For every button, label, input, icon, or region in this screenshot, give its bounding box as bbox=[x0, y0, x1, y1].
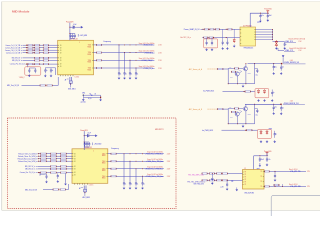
orange label ADC ctrl B bbox=[189, 108, 202, 111]
capacitor C22 bbox=[255, 68, 259, 76]
power rail wire above U1 bbox=[69, 23, 70, 41]
J1 sub label MTK_RXD bbox=[194, 183, 204, 185]
capacitor C11 bbox=[211, 38, 213, 46]
net label MID_Test B bbox=[25, 188, 38, 191]
output row +T1000_TX_Aux bbox=[94, 65, 163, 70]
svg-text:4.7K: 4.7K bbox=[239, 70, 242, 72]
capacitor C31 bbox=[266, 157, 271, 162]
input row Camera_Tx_D_5V_2M_in with resistors bbox=[5, 44, 57, 47]
svg-text:0 TEL_MTK_RXD: 0 TEL_MTK_RXD bbox=[290, 186, 301, 188]
power net label Power3V3 bbox=[66, 20, 73, 23]
ground IC bottom left bbox=[235, 188, 238, 192]
wire MID test row B bbox=[43, 189, 53, 191]
wire S1 out2 bbox=[278, 48, 284, 51]
svg-text:2.5V: 2.5V bbox=[307, 186, 310, 188]
power rail S6 bbox=[254, 153, 268, 170]
resistor R13 bbox=[40, 85, 46, 87]
ground S4 bottom bbox=[242, 125, 245, 128]
svg-text:MN1: MN1 bbox=[82, 93, 85, 95]
wire S1 input row bbox=[201, 29, 241, 30]
svg-text:10K: 10K bbox=[229, 67, 231, 69]
svg-text:10u: 10u bbox=[275, 107, 277, 109]
ground MN1 left bbox=[81, 98, 87, 103]
red text S1 row1 bbox=[289, 37, 305, 40]
svg-text:Inv_PWM_LED1: Inv_PWM_LED1 bbox=[203, 90, 214, 92]
svg-text:U1 MID-32: U1 MID-32 bbox=[70, 39, 78, 41]
svg-text:0.1u: 0.1u bbox=[261, 15, 264, 17]
red text 0.5A S2 bbox=[290, 59, 293, 62]
power rail above U2 bbox=[250, 13, 269, 27]
svg-text:MID Module: MID Module bbox=[12, 9, 30, 13]
svg-text:0.1uF: 0.1uF bbox=[88, 133, 91, 135]
input row B Pixhawk_Aux_Data_5V2M_in bbox=[18, 160, 72, 163]
svg-text:10K: 10K bbox=[229, 107, 231, 109]
svg-text:TX: TX bbox=[260, 176, 262, 178]
svg-text:0 TEL_MTK_TXD: 0 TEL_MTK_TXD bbox=[290, 171, 301, 173]
svg-text:GH1.25-6P-SM: GH1.25-6P-SM bbox=[244, 193, 254, 195]
ground below C31 bbox=[266, 163, 269, 166]
svg-text:TXD0: TXD0 bbox=[102, 153, 106, 155]
svg-text:TXD0: TXD0 bbox=[88, 52, 92, 54]
blue text 12K bbox=[231, 181, 233, 183]
input row B MID_EN_5V_in_m bbox=[25, 168, 72, 170]
transistor circuit S2 bbox=[223, 63, 255, 84]
resistor on J1 row2 bbox=[274, 184, 283, 187]
svg-text:PIX_TEL_MTK_TXD: PIX_TEL_MTK_TXD bbox=[188, 175, 204, 177]
resistor R31 bbox=[245, 91, 251, 93]
output row +T1000_5V_Main bbox=[94, 42, 163, 47]
wire S5 bbox=[222, 130, 258, 131]
rail S4 bbox=[245, 104, 282, 105]
cap drop J1 right bbox=[274, 171, 277, 181]
svg-text:5 4 3 2: 5 4 3 2 bbox=[75, 76, 80, 78]
red box S5 bbox=[258, 129, 272, 138]
decoupling cap drop 3 module A bbox=[129, 60, 133, 79]
svg-text:0.1u: 0.1u bbox=[256, 75, 259, 77]
U2 part name below bbox=[244, 47, 255, 49]
orange dashed wire S4 bbox=[208, 108, 218, 110]
power arrow right B bbox=[91, 134, 98, 137]
input row B Pixhawk_Telem_Rx_5V2M_in bbox=[18, 155, 72, 157]
wire test row to IC bbox=[53, 77, 59, 85]
power net label Power3V3 B bbox=[80, 129, 87, 132]
svg-text:0.1u: 0.1u bbox=[256, 115, 259, 117]
capacitor C5 with ground bbox=[44, 68, 48, 78]
red diode DL4 bbox=[266, 130, 268, 134]
svg-text:Y16M_C: Y16M_C bbox=[19, 77, 26, 79]
input row Camera_Pwr_5V_Ctl_in with resistors bbox=[10, 63, 58, 66]
resistor R14 bbox=[47, 85, 53, 87]
wire S3 bbox=[223, 91, 256, 92]
net label +3V3_MID B bbox=[93, 143, 103, 146]
net label MID_Test_5V_IN bbox=[7, 84, 20, 87]
svg-text:RXD0: RXD0 bbox=[102, 178, 106, 180]
capacitor C23 bbox=[271, 90, 275, 97]
red diode DL1 bbox=[257, 89, 259, 93]
net label ANT_MID1 bbox=[68, 86, 76, 91]
svg-text:Power_VBAT_IN_5V: Power_VBAT_IN_5V bbox=[184, 28, 201, 31]
capacitor C10 bbox=[206, 38, 208, 46]
antenna feed lines B bbox=[84, 186, 87, 195]
svg-text:MID RXTX: MID RXTX bbox=[155, 129, 164, 131]
wire caps to IC B bbox=[64, 173, 67, 185]
label Frequency A bbox=[104, 40, 112, 43]
svg-text:4.7K: 4.7K bbox=[239, 110, 242, 112]
svg-text:TXD0: TXD0 bbox=[102, 161, 106, 163]
ground below C20 bbox=[272, 72, 275, 75]
wire test row to IC B bbox=[66, 184, 69, 190]
svg-text:TXD0: TXD0 bbox=[88, 60, 92, 62]
svg-text:5 5 5 5: 5 5 5 5 bbox=[89, 185, 94, 187]
net label +TFMINI_SENSOR_5V0 bbox=[283, 62, 305, 64]
power rail wire above U3 bbox=[84, 131, 85, 150]
red annotation box XTAL bbox=[25, 67, 41, 75]
capacitor C24 bbox=[273, 104, 277, 111]
red label S1 row2 bbox=[181, 36, 192, 39]
svg-text:agnd: agnd bbox=[257, 21, 260, 23]
ground below xtal box bbox=[28, 74, 31, 77]
input row Camera_Clk_D_5V_2M_in with resistors bbox=[5, 49, 58, 52]
ground below D2 bbox=[275, 47, 278, 50]
svg-text:0.1u: 0.1u bbox=[268, 159, 271, 161]
svg-text:+T1000_Telem_RXD_Main: +T1000_Telem_RXD_Main bbox=[145, 154, 163, 156]
input row B Pixhawk_Main_Data_5V2M_in bbox=[18, 157, 72, 160]
text below J1 bbox=[244, 193, 254, 195]
ground S2 bottom bbox=[242, 85, 245, 88]
capacitor C20 bbox=[273, 64, 277, 71]
svg-text:+3V3_MID: +3V3_MID bbox=[94, 144, 102, 146]
resistor R33 bbox=[246, 129, 252, 131]
J1 input row PIX_TEL_MTK_RXD_L bbox=[187, 180, 242, 184]
svg-text:12K: 12K bbox=[231, 181, 233, 183]
diode D2 red bbox=[275, 40, 277, 46]
J1 output row 0 TEL_MTK_TXD bbox=[264, 168, 310, 173]
svg-text:RXD0: RXD0 bbox=[88, 54, 92, 56]
net label +5TAIL_OTP bbox=[284, 49, 302, 52]
wire row7 drop bbox=[27, 64, 28, 68]
label Frequency B bbox=[111, 147, 119, 150]
resistor R21 bbox=[228, 29, 233, 31]
svg-text:2.5V: 2.5V bbox=[307, 171, 310, 173]
svg-text:100K: 100K bbox=[230, 77, 233, 79]
input row B Camera_Pwr_5V_Ctl_in_m bbox=[20, 171, 72, 174]
net label VBAT_BUS_IN bbox=[184, 28, 201, 31]
svg-text:TPS54331DDC: TPS54331DDC bbox=[244, 47, 255, 49]
ground below C25 bbox=[280, 112, 283, 115]
red power text Power5V0 S1 bbox=[264, 8, 271, 11]
svg-text:gnd_Marc: gnd_Marc bbox=[81, 102, 87, 104]
output row +T1000_A_Aux bbox=[94, 50, 163, 55]
red text XTAL note bbox=[19, 77, 26, 79]
capacitor C26 bbox=[255, 109, 259, 117]
resistor R30 bbox=[217, 68, 223, 70]
diode D1 bbox=[233, 29, 236, 47]
net label +5TAIL_POD bbox=[284, 40, 302, 43]
IC U1 MID module chip bbox=[58, 39, 94, 79]
capacitor C27 bbox=[274, 131, 278, 138]
svg-text:Power5V0: Power5V0 bbox=[264, 8, 271, 11]
svg-text:Pixhawk_Telem_Tx_5V2M_in: Pixhawk_Telem_Tx_5V2M_in bbox=[18, 153, 37, 155]
svg-text:MID_Test_5V_IN: MID_Test_5V_IN bbox=[25, 188, 38, 191]
resistor RB13 bbox=[53, 189, 59, 191]
capacitor C15 with label bbox=[267, 14, 272, 19]
power arrow down S2 bbox=[282, 55, 285, 63]
capacitor C6 with ground bbox=[50, 68, 54, 78]
power arrow right bbox=[76, 26, 83, 29]
bypass capacitors B bbox=[84, 142, 91, 147]
capacitor C40 bbox=[87, 133, 91, 138]
red power text Power5V0 S6 bbox=[264, 150, 271, 153]
svg-text:R1_/B: R1_/B bbox=[88, 98, 91, 100]
red diode DL3 bbox=[260, 130, 262, 134]
svg-text:S8050: S8050 bbox=[248, 113, 252, 115]
svg-text:MID_Test_5V_IN: MID_Test_5V_IN bbox=[7, 84, 20, 87]
red text MID RXTX bbox=[155, 129, 164, 131]
U2 output bus bbox=[256, 29, 274, 40]
svg-text:MID_SW_5V_in: MID_SW_5V_in bbox=[12, 58, 22, 60]
svg-text:+3V3_MID: +3V3_MID bbox=[80, 35, 88, 37]
wire caps to IC bbox=[45, 68, 55, 75]
capacitor C1 bbox=[73, 24, 77, 29]
title text MID Module bbox=[12, 9, 30, 13]
input row Camera_D_D_5V_2M_in with resistors bbox=[6, 51, 58, 54]
net label +3V3_MID bbox=[78, 34, 88, 37]
input row MID_SW_5V_in with resistors bbox=[12, 57, 58, 59]
svg-text:TXD0: TXD0 bbox=[102, 168, 106, 170]
wire branch to C40 bbox=[84, 135, 87, 137]
capacitor CB1 bbox=[45, 174, 48, 183]
svg-text:+T1000_5V_Main: +T1000_5V_Main bbox=[143, 45, 155, 47]
ground below C15 bbox=[266, 19, 269, 22]
svg-text:TXD0: TXD0 bbox=[88, 68, 92, 70]
capacitor C14 with label bbox=[259, 14, 264, 19]
svg-text:PIX_TEL_MTK_RXD_L: PIX_TEL_MTK_RXD_L bbox=[187, 182, 206, 184]
svg-text:U3 MID-32: U3 MID-32 bbox=[84, 147, 92, 149]
svg-text:RXD0: RXD0 bbox=[88, 69, 92, 71]
red text S1 row2 bbox=[289, 47, 305, 50]
agnd arrow below C14 bbox=[257, 19, 262, 24]
capacitor CX2 bbox=[29, 68, 36, 73]
svg-text:0.1: 0.1 bbox=[282, 67, 284, 69]
net label Inv_PWM_LED2 bbox=[202, 130, 213, 132]
svg-text:Frequency: Frequency bbox=[104, 40, 112, 43]
svg-text:10uF: 10uF bbox=[269, 15, 272, 17]
cap drop J1 row1 bbox=[211, 173, 214, 185]
resistor RB14 bbox=[60, 189, 66, 191]
svg-text:1 2: 1 2 bbox=[244, 168, 246, 170]
svg-text:U2 TPS54331: U2 TPS54331 bbox=[243, 26, 252, 28]
decoupling cap drop 1 module B bbox=[123, 154, 127, 190]
red box S3 bbox=[255, 89, 269, 98]
agnd arrow below C30 bbox=[257, 163, 262, 170]
resistor R23 bbox=[209, 37, 214, 39]
net label ANT_MID2 bbox=[83, 194, 91, 199]
bypass capacitors C2 C3 C4 bbox=[69, 34, 76, 39]
wire S1 row2 bbox=[202, 37, 240, 38]
capacitor CB2 bbox=[40, 173, 59, 183]
svg-text:Inv_PWM_LED2: Inv_PWM_LED2 bbox=[202, 130, 213, 132]
decoupling cap drop 4 module A bbox=[135, 68, 139, 80]
input row B MID_SW_5V_in_m bbox=[25, 166, 72, 168]
J1 input row PIX_TEL_MTK_TXD bbox=[188, 173, 242, 177]
small label near antenna bbox=[65, 78, 69, 81]
capacitor C12 bbox=[221, 29, 224, 50]
power symbol S1 bbox=[266, 11, 269, 13]
IC U3 MID module chip B bbox=[72, 147, 108, 186]
net label +TFMINI_SENSOR_3V3 bbox=[283, 103, 305, 105]
capacitor C21 bbox=[280, 65, 284, 71]
blue text PWM S5 bbox=[269, 129, 273, 131]
capacitor CX1 bbox=[28, 68, 30, 73]
matching network MN1 bbox=[82, 93, 102, 102]
svg-text:0.1uF: 0.1uF bbox=[73, 24, 76, 26]
input row Camera_Rx_D_5V_2M_in with resistors bbox=[5, 46, 58, 49]
small label near antenna B bbox=[79, 187, 83, 190]
svg-text:TXD0: TXD0 bbox=[102, 176, 106, 178]
resistor R20 bbox=[215, 29, 220, 31]
resistor R22 bbox=[203, 37, 208, 39]
red dashed module box bbox=[8, 118, 177, 209]
connector J1 bbox=[243, 168, 265, 189]
resistor R32 bbox=[217, 108, 223, 110]
wire row7 drop B bbox=[39, 172, 40, 176]
svg-text:a=TB: a=TB bbox=[220, 186, 223, 188]
svg-text:TXD0: TXD0 bbox=[88, 45, 92, 47]
antenna feed lines bbox=[69, 77, 72, 86]
svg-text:TX: TX bbox=[260, 186, 262, 188]
J1 output row 0 TEL_MTK_RXD bbox=[264, 183, 310, 188]
svg-text:MID_SW_5V_in_m: MID_SW_5V_in_m bbox=[25, 166, 38, 168]
notes box outline bbox=[271, 196, 320, 226]
svg-text:Power3V3: Power3V3 bbox=[66, 20, 73, 23]
svg-text:4K: 4K bbox=[95, 94, 97, 96]
output wire S1 bbox=[273, 41, 285, 42]
decoupling cap drop 2 module B bbox=[129, 161, 133, 189]
orange dashed wire S2 bbox=[208, 68, 218, 70]
svg-text:+T1000_Relem_RXD_Main: +T1000_Relem_RXD_Main bbox=[145, 169, 163, 171]
ground below C24 bbox=[272, 112, 275, 115]
svg-text:TX: TX bbox=[260, 171, 262, 173]
svg-text:10uF: 10uF bbox=[261, 159, 264, 161]
svg-text:Frequency: Frequency bbox=[111, 147, 119, 150]
red diode DL2 bbox=[263, 89, 265, 93]
svg-text:RXD0: RXD0 bbox=[88, 62, 92, 64]
grounds below S3 bbox=[257, 99, 273, 102]
capacitor C25 bbox=[280, 105, 284, 111]
input row MID_EN_5V_in with resistors bbox=[12, 60, 58, 62]
svg-text:Pixhawk_Telem_Rx_5V2M_in: Pixhawk_Telem_Rx_5V2M_in bbox=[18, 156, 37, 158]
svg-text:RXD0: RXD0 bbox=[102, 163, 106, 165]
output row B +T1000_Telem_RXD_Main bbox=[108, 151, 171, 156]
svg-text:RXD0: RXD0 bbox=[102, 155, 106, 157]
IC U2 regulator bbox=[240, 26, 256, 47]
svg-text:TX: TX bbox=[260, 181, 262, 183]
decoupling cap drop 2 module A bbox=[123, 53, 127, 80]
grounds below S5 bbox=[260, 140, 276, 143]
red box input caps bbox=[204, 39, 218, 48]
svg-text:0.1: 0.1 bbox=[282, 108, 284, 110]
cap drop J1 row2 bbox=[220, 180, 228, 191]
svg-text:RXD0: RXD0 bbox=[88, 46, 92, 48]
svg-text:Power3V3: Power3V3 bbox=[80, 129, 87, 132]
transistor circuit S4 bbox=[223, 104, 255, 124]
wire MID test row bbox=[22, 84, 40, 86]
orange label ADC ctrl A bbox=[189, 68, 203, 71]
wire branch to C1 bbox=[70, 26, 73, 28]
input row B Pixhawk_Telem_Tx_5V2M_in bbox=[18, 153, 72, 155]
power symbol S6 bbox=[266, 153, 269, 155]
fuse F1 bbox=[204, 29, 209, 31]
svg-text:MID_EN_5V_in_m: MID_EN_5V_in_m bbox=[25, 169, 38, 171]
decoupling cap drop 4 module B bbox=[141, 176, 145, 189]
output row B +T1000_Relem_TXD_Aux bbox=[108, 173, 171, 178]
capacitor C30 bbox=[259, 157, 264, 162]
red text 2.5A S4 bbox=[290, 100, 293, 103]
svg-text:RXD0: RXD0 bbox=[102, 170, 106, 172]
svg-text:MTK_RXD_3V3: MTK_RXD_3V3 bbox=[194, 183, 204, 185]
ground below C21 bbox=[280, 72, 283, 75]
capacitor C13 bbox=[226, 38, 229, 50]
rail S2 bbox=[248, 63, 283, 64]
svg-text:10u: 10u bbox=[275, 67, 277, 69]
decoupling cap drop 1 module A bbox=[118, 45, 122, 80]
output row B +T1000_Relem_RXD_Main bbox=[108, 166, 171, 171]
svg-text:100K: 100K bbox=[230, 117, 233, 119]
svg-text:MID_EN_5V_in: MID_EN_5V_in bbox=[12, 60, 22, 62]
capacitor C16 small bbox=[283, 43, 287, 50]
net label Inv_PWM_LED1 bbox=[203, 90, 214, 92]
ground below red box S1 bbox=[205, 48, 213, 51]
svg-text:S8050: S8050 bbox=[248, 73, 252, 75]
output row +T1000_TRA_Main bbox=[94, 57, 163, 62]
decoupling cap drop 3 module B bbox=[135, 169, 139, 190]
output row B +T1000_Telem_TXD_Aux bbox=[108, 158, 171, 163]
bead FB1 bbox=[210, 29, 215, 31]
